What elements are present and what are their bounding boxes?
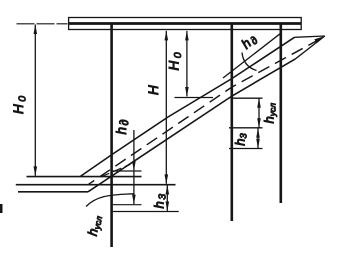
excavation bottom line (top wall) bbox=[27, 176, 142, 178]
slope arrow upper wing bbox=[295, 36, 325, 37]
depression curve dashes near pile 1 bbox=[101, 164, 130, 176]
wellpoint pile 1 bbox=[110, 24, 113, 247]
dimension H0 left: top arrowhead bbox=[34, 24, 38, 34]
slope bottom edge diagonal bbox=[88, 59, 296, 192]
dimension h-d left: bottom arrowhead bbox=[132, 161, 136, 171]
slope arrow head bbox=[314, 36, 325, 43]
h usl left bottom arrowhead bbox=[132, 195, 136, 205]
dimension H0 right: bottom arrowhead bbox=[185, 87, 189, 97]
slope arrow lower wing bbox=[296, 36, 325, 59]
tick at depression level pile 1 bbox=[113, 170, 142, 172]
tick h usl left bbox=[113, 204, 142, 206]
depression line between pile 2 and pile 3 bbox=[223, 33, 281, 78]
svg-text:H: H bbox=[146, 85, 161, 95]
dimension H: bottom arrowhead bbox=[165, 174, 169, 184]
arc leader h-d right bbox=[242, 53, 257, 71]
h usl right bottom arrowhead bbox=[257, 118, 261, 128]
ground datum line left of cap beam bbox=[17, 23, 68, 25]
h3 right bottom arrowhead bbox=[256, 139, 260, 149]
cap beam outline bbox=[69, 18, 302, 30]
slope top edge diagonal bbox=[80, 37, 295, 176]
h3 left bottom arrowhead bbox=[166, 202, 170, 212]
pipe bottom wall horizontal bbox=[18, 191, 88, 193]
dimension h-d left: line bbox=[133, 130, 135, 171]
dimension h usl right: line bbox=[258, 98, 260, 128]
dimension h3 right: line bbox=[257, 128, 259, 148]
h3 right top arrowhead bbox=[256, 128, 260, 138]
dimension H0 left: line bbox=[34, 25, 36, 176]
tick level 2 right cluster bbox=[229, 127, 263, 129]
slope axis dashed diagonal bbox=[88, 40, 319, 185]
long tick below h3 left bbox=[113, 211, 179, 213]
svg-text:h∂: h∂ bbox=[114, 118, 131, 134]
h usl right top arrowhead bbox=[257, 98, 261, 108]
lower dimension line at pile1 (h usl left): line bbox=[133, 171, 135, 204]
h3 left top arrowhead bbox=[166, 185, 170, 195]
wellpoint pile 2 bbox=[231, 24, 234, 221]
dimension H0 left: bottom arrowhead bbox=[34, 166, 38, 176]
dimension H: line bbox=[165, 31, 167, 184]
pipe axis line horizontal bbox=[16, 184, 176, 186]
wellpoint pile 3 bbox=[279, 24, 282, 203]
dimension H0 right: top arrowhead bbox=[185, 31, 189, 41]
cap beam thick axis line bbox=[69, 22, 302, 25]
dimension H0 right: line bbox=[186, 31, 188, 97]
tick level 3 right cluster bbox=[229, 148, 263, 150]
tick level 1 right cluster bbox=[231, 97, 263, 99]
dimension H: top arrowhead bbox=[165, 31, 169, 41]
leader curve to h usl label bbox=[86, 194, 134, 207]
scan speck left edge bbox=[0, 204, 3, 213]
tick under H0 right bbox=[175, 97, 214, 99]
dimension h3 left: line bbox=[166, 185, 168, 211]
